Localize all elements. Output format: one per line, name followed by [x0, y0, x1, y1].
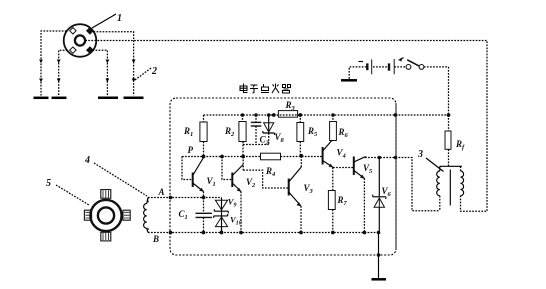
- battery ground: [341, 67, 367, 80]
- svg-text:2: 2: [151, 66, 157, 77]
- svg-text:R7: R7: [337, 195, 348, 207]
- svg-text:3: 3: [417, 149, 423, 160]
- capacitor C1: [179, 198, 213, 235]
- wire plug1: [41, 31, 67, 96]
- wire node A line: [148, 197, 222, 199]
- output line: [365, 156, 397, 160]
- svg-text:V6: V6: [382, 186, 392, 198]
- ground rail (B line): [148, 232, 379, 234]
- svg-text:V4: V4: [337, 148, 347, 160]
- label 3 leader: [426, 158, 444, 172]
- svg-text:R4: R4: [265, 166, 276, 178]
- wire V4 emitter to V5 base: [333, 167, 353, 169]
- svg-text:4: 4: [84, 155, 90, 166]
- svg-text:V2: V2: [246, 177, 256, 189]
- resistor R4: [261, 153, 281, 178]
- resistor R3: [274, 100, 301, 117]
- battery GB: [367, 59, 394, 74]
- svg-text:V5: V5: [363, 163, 373, 175]
- resistor R1: [183, 115, 207, 157]
- transistor V4: [323, 141, 347, 168]
- resistor R2: [224, 115, 246, 170]
- svg-text:B: B: [152, 234, 159, 244]
- signal rotor wheel: [84, 190, 130, 241]
- svg-text:R6: R6: [338, 127, 349, 139]
- supply rail external: [394, 113, 451, 117]
- svg-text:V8: V8: [275, 132, 285, 144]
- zener V8: [263, 115, 285, 145]
- wire plug3: [93, 50, 108, 95]
- resistor R5: [297, 115, 318, 156]
- zener V10: [214, 214, 242, 235]
- title 电子点火器: [240, 84, 291, 95]
- battery minus sign: [359, 61, 364, 63]
- svg-text:V3: V3: [304, 183, 314, 195]
- transistor V3: [289, 156, 314, 235]
- wire V2 collector to V3 base: [243, 170, 288, 188]
- spark plug 4: [124, 97, 144, 100]
- node P and P-line: [182, 145, 323, 159]
- svg-text:C1: C1: [179, 209, 188, 221]
- amplifier box: [170, 98, 396, 255]
- ignition coil T: [437, 166, 464, 211]
- transistor V5: [354, 157, 373, 235]
- svg-text:V10: V10: [230, 215, 242, 227]
- spark plug 1: [34, 97, 49, 100]
- svg-text:5: 5: [46, 178, 51, 189]
- spark plug 2: [52, 97, 67, 100]
- pickup coil winding: [144, 198, 148, 233]
- wire output to coil primary: [396, 158, 440, 211]
- resistor Rf: [445, 115, 465, 166]
- svg-text:V1: V1: [207, 176, 216, 188]
- label 4 leader: [94, 163, 147, 196]
- distributor cap: [64, 24, 97, 57]
- wire V4 emitter to R7: [332, 168, 334, 191]
- label 5 leader: [56, 185, 89, 205]
- label 2 leader: [135, 68, 151, 80]
- resistor R6: [330, 115, 349, 141]
- resistor R7: [328, 191, 347, 235]
- switch arrow: [398, 58, 404, 62]
- svg-text:R1: R1: [183, 126, 193, 138]
- top supply rail: [204, 113, 396, 117]
- label 1 leader: [92, 14, 116, 28]
- transistor V1: [182, 157, 216, 200]
- capacitor C2: [243, 115, 270, 147]
- plug wire arrows: [39, 60, 135, 83]
- ignition switch: [394, 60, 448, 70]
- node B: [152, 231, 172, 244]
- transistor V2: [222, 157, 256, 235]
- svg-text:Rf: Rf: [455, 139, 465, 151]
- wire plug4: [94, 32, 134, 96]
- ground wire below box: [377, 231, 381, 279]
- svg-text:P: P: [188, 145, 194, 155]
- node A: [158, 187, 173, 199]
- wire rotor to coil secondary: [85, 41, 487, 212]
- wire switch to supply node: [448, 67, 450, 115]
- wire plug2: [59, 50, 68, 95]
- svg-text:R2: R2: [224, 126, 235, 138]
- zener V9: [214, 196, 236, 232]
- ground: [372, 278, 387, 281]
- svg-text:A: A: [158, 187, 165, 197]
- svg-text:R5: R5: [307, 126, 318, 138]
- spark plug 3: [98, 97, 118, 100]
- zener V6: [373, 158, 392, 233]
- svg-text:V9: V9: [228, 196, 237, 208]
- svg-text:1: 1: [117, 13, 122, 24]
